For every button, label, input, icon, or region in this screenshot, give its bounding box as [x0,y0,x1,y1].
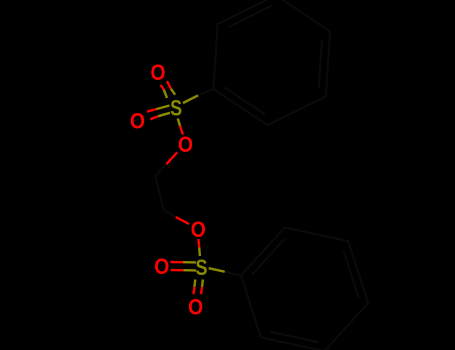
svg-text:O: O [151,60,166,85]
svg-text:S: S [170,96,182,121]
svg-text:O: O [188,295,203,320]
svg-text:O: O [191,217,206,242]
svg-text:O: O [178,132,193,157]
svg-text:S: S [196,255,208,280]
svg-text:O: O [130,109,145,134]
svg-text:O: O [154,254,169,279]
